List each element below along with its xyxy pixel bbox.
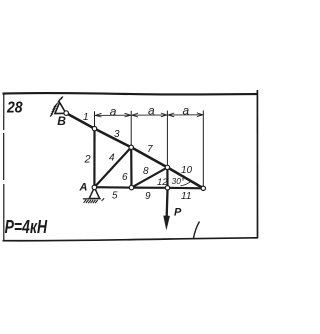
node b1	[129, 185, 133, 189]
member 2 (n1 to A, vertical)	[93, 129, 95, 188]
frame border right	[256, 90, 258, 239]
member 10 (n3 to n4)	[167, 167, 203, 188]
svg-text:4: 4	[109, 153, 115, 164]
node n1	[92, 126, 96, 130]
member 1 (B to n1)	[66, 113, 94, 129]
angle arc	[181, 181, 192, 186]
support B wall hatching	[50, 97, 63, 117]
svg-text:11: 11	[181, 191, 191, 202]
member 9 (b1 to b2, bottom chord)	[132, 187, 168, 189]
member 6 (n2 to b1, vertical)	[130, 147, 133, 187]
svg-text:8: 8	[143, 166, 149, 177]
svg-text:P: P	[174, 207, 182, 219]
svg-text:P=4кН: P=4кН	[5, 217, 48, 237]
support A base line	[83, 198, 101, 200]
member 5 (A to b1, bottom chord)	[94, 186, 131, 189]
node n2	[129, 145, 133, 149]
svg-text:a: a	[110, 105, 117, 119]
dimension arrow right seg2	[161, 113, 167, 117]
dimension tick 4 / extension line to node n4	[202, 110, 204, 188]
svg-text:2: 2	[84, 154, 91, 166]
dimension arrow left seg3	[168, 113, 174, 117]
member 12 (n3 to b2, vertical)	[166, 167, 168, 187]
svg-text:7: 7	[147, 144, 153, 155]
support A hatching	[84, 198, 105, 203]
node B pin	[64, 111, 69, 116]
dimension arrow left seg2	[132, 113, 138, 117]
svg-text:1: 1	[83, 112, 89, 123]
force P arrow line	[165, 190, 168, 220]
dimension tick 1	[94, 111, 96, 126]
svg-text:10: 10	[181, 165, 193, 176]
member 8 (b1 to n3, diagonal)	[132, 167, 168, 187]
svg-text:a: a	[148, 104, 155, 118]
svg-text:В: В	[57, 114, 66, 128]
node A pin	[92, 185, 97, 190]
member 4 (A to n2, diagonal)	[94, 147, 131, 187]
svg-text:28: 28	[6, 99, 23, 117]
support A triangle	[89, 187, 99, 198]
svg-text:12: 12	[157, 177, 168, 188]
svg-text:6: 6	[122, 172, 128, 183]
dimension line	[95, 114, 204, 117]
svg-text:A: A	[79, 181, 88, 193]
node n3	[165, 165, 169, 169]
node n4	[201, 186, 205, 190]
svg-text:a: a	[183, 104, 190, 118]
frame border top	[3, 93, 258, 94]
dimension arrow right seg1	[125, 113, 131, 117]
frame border left	[3, 94, 5, 242]
dimension arrow right seg3	[197, 113, 203, 117]
force P arrowhead	[164, 216, 170, 230]
support B triangle	[55, 102, 66, 113]
stray pen mark bottom right	[194, 222, 200, 239]
dimension tick 3 / extension line to node n3	[166, 111, 168, 167]
node b2	[165, 186, 169, 190]
svg-text:5: 5	[112, 191, 118, 202]
member 3 (n1 to n2)	[95, 129, 132, 148]
dimension arrow left seg1	[95, 113, 101, 117]
svg-text:3: 3	[114, 129, 120, 140]
frame border bottom	[3, 238, 258, 241]
member 7 (n2 to n3)	[131, 147, 167, 167]
svg-text:9: 9	[145, 191, 151, 202]
dimension tick 2 / extension line to node n2	[130, 111, 132, 147]
member 11 (b2 to n4, bottom chord)	[168, 187, 204, 190]
svg-text:30°: 30°	[172, 176, 185, 186]
